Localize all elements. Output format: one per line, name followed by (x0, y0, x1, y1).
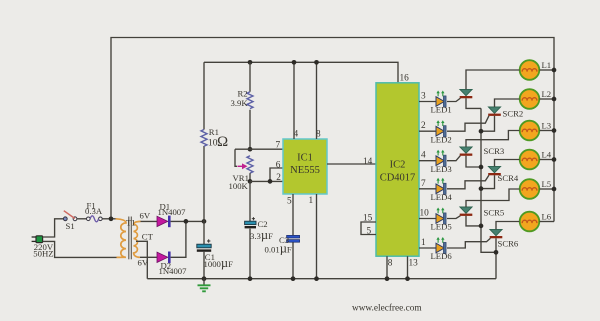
LED D6 (LED6) (431, 237, 453, 261)
svg-text:2: 2 (421, 121, 426, 131)
wire plug bottom prong to transformer primary bottom (43, 241, 117, 257)
lamp L3 (520, 121, 551, 141)
capacitor C2 3.3uF (245, 217, 273, 242)
svg-text:IC2: IC2 (390, 160, 406, 171)
junction pin8 on rail (385, 276, 390, 281)
svg-text:3.3µF: 3.3µF (250, 228, 273, 242)
svg-text:1000µF: 1000µF (204, 256, 234, 270)
LED D1 (LED1) (431, 91, 452, 115)
svg-text:IC1: IC1 (297, 153, 313, 164)
wire mains riser, top rail and right lamp rail (111, 38, 554, 222)
wire C1 bottom to rail (203, 252, 205, 279)
wire cathode bus (481, 108, 496, 252)
svg-text:CT: CT (142, 231, 154, 241)
svg-text:NE555: NE555 (290, 165, 320, 176)
capacitor C1 1000uF (197, 239, 233, 269)
svg-text:6: 6 (276, 161, 281, 171)
svg-text:3.9K: 3.9K (231, 98, 249, 108)
wire secondary 6V bottom to D2 (140, 256, 157, 258)
junction L3 on rail (552, 128, 557, 133)
lamp L1 (520, 60, 551, 80)
junction C2 on rail (248, 276, 253, 281)
wire S1 to fuse F1 (77, 218, 87, 220)
wire SCR2 cathode to bus (481, 116, 495, 131)
junction L2 on rail (552, 97, 557, 102)
wire IC2 output to LED1 (419, 101, 436, 103)
resistor R2 3.9K (231, 62, 254, 149)
junction VR1 bottom / pin2 run (248, 179, 253, 184)
svg-text:2: 2 (276, 173, 281, 183)
IC U2 CD4017 (IC2) (376, 83, 419, 256)
svg-text:LED3: LED3 (431, 164, 452, 174)
diode D1 1N4007 (157, 201, 186, 227)
LED D2 (LED2) (431, 120, 452, 144)
svg-text:www.elecfree.com: www.elecfree.com (352, 303, 422, 314)
wire bottom ground rail (147, 278, 496, 280)
wire IC1 pin4 to Vcc rail (293, 62, 295, 139)
IC U1 NE555 (IC1) (283, 139, 327, 194)
wire L2 to right rail (540, 98, 555, 100)
svg-text:7: 7 (421, 179, 426, 189)
svg-text:LED5: LED5 (431, 222, 452, 232)
wire pin6 bracket to pin2 (270, 168, 283, 181)
junction pin1 on rail (314, 276, 319, 281)
wire IC2 output to LED6 (419, 247, 436, 249)
svg-text:SCR6: SCR6 (498, 238, 519, 248)
wire L1 to right rail (540, 69, 555, 71)
wire IC2 output to LED2 (419, 130, 436, 132)
svg-text:R2: R2 (238, 89, 248, 99)
svg-text:1N4007: 1N4007 (158, 207, 187, 217)
transformer T1 (116, 210, 154, 267)
svg-text:50HZ: 50HZ (33, 248, 53, 258)
svg-text:L2: L2 (542, 89, 552, 99)
wire secondary CT to bottom rail (136, 241, 147, 278)
wire LED1 cathode to SCR1 gate (447, 98, 460, 101)
lamp L4 (520, 150, 552, 170)
AC plug 220V 50HZ (32, 236, 54, 259)
wire IC2 pin15/pin5 bracket (361, 222, 376, 235)
wire L6 to SCR6 anode (496, 222, 520, 230)
junction R2/VR1/pin7 (248, 147, 253, 152)
wire F1 to transformer primary top (102, 218, 116, 220)
junction SCR2 cathode on bus (479, 129, 484, 134)
resistor R1 10 ohm (201, 127, 228, 150)
junction SCR5 cathode on bus (479, 224, 484, 229)
junction pin8 on rail (314, 60, 319, 65)
svg-text:Ω: Ω (217, 134, 228, 150)
junction fuse/riser (109, 216, 114, 221)
wire SCR3 cathode to bus (466, 156, 481, 167)
wire L4 to SCR4 anode (495, 160, 520, 167)
wire IC1 pin3 to IC2 pin14 (327, 163, 376, 165)
wire LED6 cathode to SCR6 gate (447, 238, 490, 248)
wire L2 to SCR2 anode (495, 99, 520, 107)
lamp L5 (520, 179, 551, 199)
junction pin13 on rail (405, 276, 410, 281)
wire SCR6 cathode down to bottom rail (495, 238, 497, 278)
junction SCR3 cathode on bus (479, 165, 484, 170)
wire +V column through R1 (203, 62, 205, 244)
thyristor SCR6 (490, 229, 503, 238)
svg-text:4: 4 (421, 151, 426, 161)
wire IC1 pin5 to C3 (292, 194, 294, 235)
wire IC1 pin8 to Vcc rail (316, 62, 318, 139)
junction D2/D1 cathodes (184, 219, 189, 224)
svg-text:100K: 100K (229, 181, 249, 191)
IC2 pin number labels (363, 74, 429, 269)
svg-text:1N4007: 1N4007 (159, 266, 188, 276)
wire pin7 of IC1 (235, 148, 283, 150)
svg-text:SCR4: SCR4 (498, 173, 519, 183)
thyristor SCR1 (460, 89, 473, 98)
svg-text:LED1: LED1 (431, 105, 452, 115)
junction pin4 on rail (292, 60, 297, 65)
wire D2 cathode up to D1 cathode (171, 221, 186, 257)
svg-text:L6: L6 (542, 212, 552, 222)
svg-text:LED2: LED2 (431, 134, 452, 144)
junction C3 on rail (291, 276, 296, 281)
svg-text:3: 3 (421, 92, 426, 102)
junction C1/ground on rail (202, 276, 207, 281)
svg-text:14: 14 (363, 157, 373, 167)
wire LED5 cathode to SCR5 gate (447, 216, 460, 219)
wire LED4 cathode to SCR4 gate (447, 175, 489, 189)
svg-text:LED4: LED4 (431, 192, 453, 202)
switch S1 (63, 211, 77, 231)
svg-text:L5: L5 (542, 179, 552, 189)
wire IC2 output to LED3 (419, 160, 436, 162)
svg-text:5: 5 (287, 197, 292, 207)
wire L3 to right rail (540, 130, 555, 132)
LED D3 (LED3) (431, 150, 452, 174)
svg-text:L1: L1 (542, 60, 552, 70)
junction R2 top on Vcc rail (248, 60, 253, 65)
wire SCR4 cathode to bus (481, 175, 495, 188)
svg-text:16: 16 (400, 74, 410, 84)
junction SCR4 cathode on bus (479, 186, 484, 191)
svg-text:S1: S1 (66, 221, 75, 231)
junction L4 on rail (552, 157, 557, 162)
wire L1 to SCR1 anode (466, 70, 520, 89)
junction bus joins SCR6 cathode (494, 250, 499, 255)
wire LED3 cathode to SCR3 gate (447, 156, 460, 161)
wire C2 bottom to rail (249, 229, 251, 279)
lamp L6 (520, 212, 552, 232)
wire IC2 pin13 to rail (407, 256, 409, 279)
svg-text:0.3A: 0.3A (85, 206, 103, 216)
wire VR1 bottom to C2 (249, 181, 251, 221)
wire pin2 of IC1 (250, 180, 283, 182)
svg-text:L4: L4 (542, 150, 552, 160)
diode D2 1N4007 (157, 252, 187, 277)
lamp L2 (520, 89, 551, 109)
fuse F1 0.3A (85, 201, 103, 222)
wire secondary 6V top to D1 (141, 220, 158, 222)
wire SCR5 cathode to bus (466, 216, 481, 226)
svg-text:CD4017: CD4017 (380, 173, 416, 184)
wire IC1 pin1 to rail (316, 194, 318, 279)
wire IC2 output to LED4 (419, 188, 436, 190)
svg-text:1: 1 (309, 196, 314, 206)
svg-text:10: 10 (420, 209, 430, 219)
wire L6 to right rail (540, 221, 555, 223)
wire L4 to right rail (540, 159, 555, 161)
wire L5 to right rail (540, 188, 555, 190)
LED D4 (LED4) (431, 178, 453, 202)
potentiometer VR1 100K (229, 149, 254, 191)
IC1 pin number labels (276, 130, 322, 207)
svg-text:1: 1 (421, 238, 426, 248)
wire Vcc rail to IC2 pin16 (204, 62, 398, 83)
svg-text:SCR5: SCR5 (484, 208, 505, 218)
svg-text:6V: 6V (140, 210, 151, 220)
wire L3 to SCR3 anode (466, 131, 520, 147)
junction L1 on rail (552, 68, 557, 73)
wire L5 to SCR5 anode (466, 189, 520, 207)
svg-text:7: 7 (276, 141, 281, 151)
svg-text:SCR2: SCR2 (503, 109, 524, 119)
thyristor SCR5 (460, 207, 473, 216)
svg-text:13: 13 (409, 258, 419, 268)
ground (198, 279, 211, 292)
junction bracket/pin2 (268, 179, 273, 184)
wire D1 cathode to +V node (171, 220, 205, 222)
svg-text:8: 8 (388, 258, 393, 268)
wire plug top prong to switch S1 (43, 219, 64, 237)
wire IC2 output to LED5 (419, 218, 436, 220)
thyristor SCR4 (488, 166, 501, 175)
capacitor C3 0.01uF (265, 235, 300, 255)
svg-text:0.01µF: 0.01µF (265, 242, 292, 256)
LED D5 (LED5) (431, 208, 452, 232)
svg-text:LED6: LED6 (431, 251, 453, 261)
junction L5 on rail (552, 187, 557, 192)
wire SCR1 cathode to bus (466, 98, 481, 108)
wire LED2 cathode to SCR2 gate (447, 116, 489, 131)
wire IC2 pin8 to rail (386, 256, 388, 279)
svg-text:SCR3: SCR3 (484, 146, 505, 156)
thyristor SCR3 (460, 147, 473, 156)
wire C3 bottom to rail (292, 242, 294, 278)
thyristor SCR2 (488, 107, 501, 116)
svg-text:T1: T1 (126, 218, 136, 228)
svg-text:L3: L3 (542, 121, 552, 131)
junction +V node at C1 column (202, 219, 207, 224)
